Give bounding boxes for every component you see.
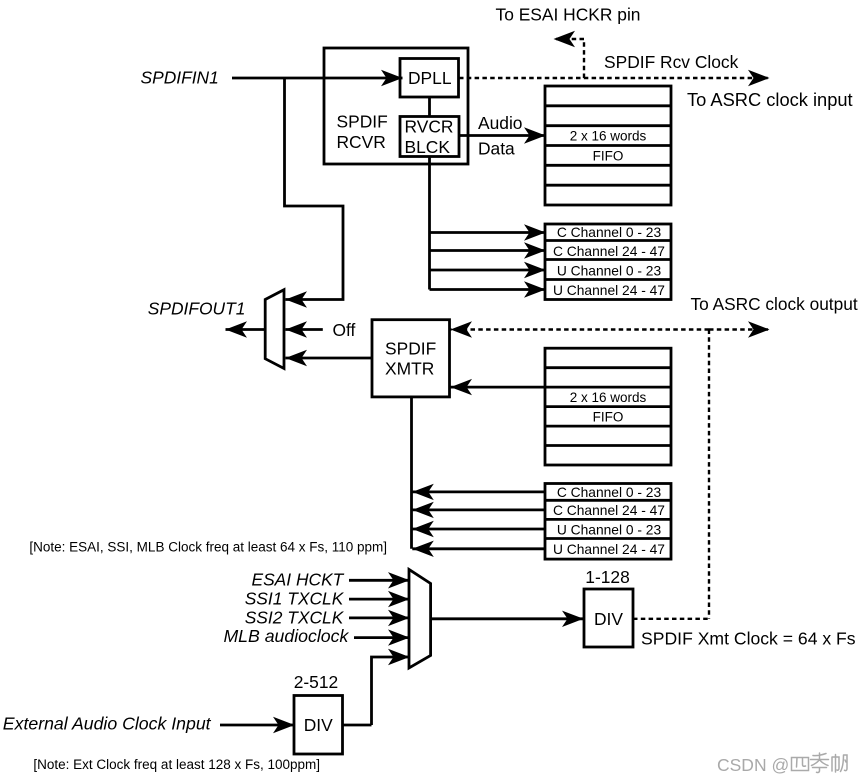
- svg-text:Off: Off: [333, 320, 356, 340]
- svg-text:To ASRC clock input: To ASRC clock input: [687, 89, 853, 110]
- svg-text:BLCK: BLCK: [405, 137, 451, 157]
- svg-text:DIV: DIV: [594, 609, 623, 629]
- svg-text:2 x 16 words: 2 x 16 words: [570, 129, 647, 144]
- svg-text:SSI2 TXCLK: SSI2 TXCLK: [245, 608, 345, 628]
- svg-text:SPDIF: SPDIF: [385, 339, 436, 359]
- svg-text:U Channel 0 - 23: U Channel 0 - 23: [557, 522, 662, 537]
- svg-text:To ASRC clock output: To ASRC clock output: [691, 294, 858, 314]
- svg-text:[Note: ESAI, SSI, MLB Clock fr: [Note: ESAI, SSI, MLB Clock freq at leas…: [29, 539, 387, 554]
- svg-text:SPDIFIN1: SPDIFIN1: [141, 68, 219, 88]
- svg-text:2-512: 2-512: [294, 672, 338, 692]
- svg-text:U Channel 24 - 47: U Channel 24 - 47: [553, 542, 665, 557]
- svg-text:CSDN @: CSDN @: [717, 755, 789, 775]
- svg-text:C Channel 24 - 47: C Channel 24 - 47: [553, 244, 665, 259]
- svg-text:SPDIFOUT1: SPDIFOUT1: [148, 298, 246, 318]
- svg-text:FIFO: FIFO: [593, 148, 624, 163]
- svg-text:SPDIF Xmt Clock = 64 x Fs: SPDIF Xmt Clock = 64 x Fs: [641, 629, 856, 649]
- svg-text:DIV: DIV: [304, 715, 333, 735]
- svg-text:U Channel 24 - 47: U Channel 24 - 47: [553, 283, 665, 298]
- svg-text:C Channel 0 - 23: C Channel 0 - 23: [557, 485, 662, 500]
- svg-text:SPDIF Rcv Clock: SPDIF Rcv Clock: [604, 52, 739, 72]
- svg-text:SPDIF: SPDIF: [337, 112, 388, 132]
- svg-text:External Audio Clock Input: External Audio Clock Input: [3, 714, 212, 734]
- svg-text:1-128: 1-128: [585, 567, 629, 587]
- svg-text:Audio: Audio: [478, 113, 522, 133]
- svg-text:DPLL: DPLL: [408, 68, 452, 88]
- svg-text:U Channel 0 - 23: U Channel 0 - 23: [557, 263, 662, 278]
- svg-text:To ESAI HCKR pin: To ESAI HCKR pin: [496, 5, 641, 25]
- svg-text:2 x 16 words: 2 x 16 words: [570, 390, 647, 405]
- svg-text:ESAI HCKT: ESAI HCKT: [251, 570, 344, 590]
- svg-text:MLB audioclock: MLB audioclock: [223, 626, 349, 646]
- svg-text:C Channel 24 - 47: C Channel 24 - 47: [553, 503, 665, 518]
- svg-text:RVCR: RVCR: [405, 117, 454, 137]
- svg-text:[Note: Ext Clock freq at least: [Note: Ext Clock freq at least 128 x Fs,…: [33, 757, 320, 772]
- svg-text:C Channel 0 - 23: C Channel 0 - 23: [557, 225, 662, 240]
- svg-text:SSI1 TXCLK: SSI1 TXCLK: [245, 588, 345, 608]
- svg-text:RCVR: RCVR: [337, 132, 386, 152]
- svg-text:Data: Data: [478, 139, 515, 159]
- svg-text:XMTR: XMTR: [385, 359, 434, 379]
- svg-text:FIFO: FIFO: [593, 409, 624, 424]
